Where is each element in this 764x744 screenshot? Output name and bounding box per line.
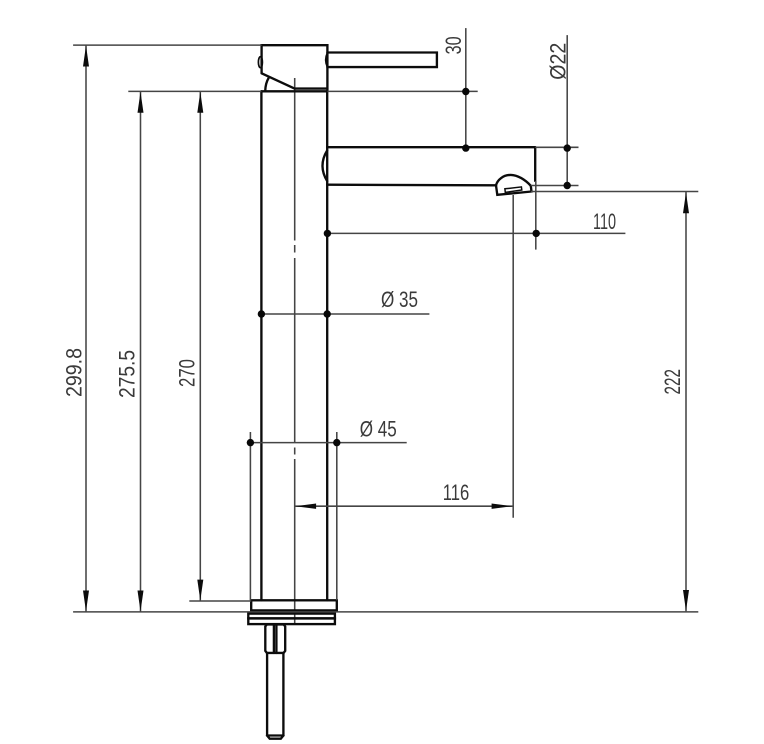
svg-text:Ø 45: Ø 45: [360, 417, 397, 442]
svg-text:30: 30: [441, 36, 466, 54]
lever handle rod: [326, 53, 437, 68]
dimension 270: [175, 91, 204, 601]
countertop line: [73, 611, 698, 613]
svg-text:110: 110: [593, 209, 616, 234]
dimension diameter 35 (body): [258, 287, 430, 318]
hex adapter: [265, 624, 285, 653]
centerline of faucet body: [294, 78, 296, 625]
extension line at flange seat: [189, 600, 251, 602]
aerator at spout tip: [496, 175, 532, 195]
dimension 116 (axis to outlet): [295, 195, 514, 518]
dimension 299.8: [61, 45, 89, 612]
handle housing (cartridge cap): [258, 45, 327, 91]
dimension 222 (outlet height): [531, 192, 698, 612]
body tube: [261, 91, 327, 600]
extension line at body top: [128, 90, 261, 92]
svg-text:Ø22: Ø22: [545, 43, 570, 80]
svg-text:270: 270: [175, 359, 200, 387]
top extension line at handle top: [73, 44, 262, 46]
svg-text:222: 222: [660, 369, 685, 395]
dimension diameter 45 (base flange): [247, 417, 407, 601]
washer under countertop: [248, 614, 335, 619]
base flange: [251, 600, 337, 610]
svg-text:275.5: 275.5: [115, 350, 140, 398]
dimension diameter 22 (spout): [531, 35, 579, 189]
dimension 110 (body edge to spout tip): [324, 181, 626, 250]
svg-text:299.8: 299.8: [61, 348, 86, 397]
dimension 275.5: [115, 91, 144, 612]
svg-text:116: 116: [443, 480, 470, 505]
locknut: [248, 618, 335, 624]
spout: [323, 147, 536, 185]
threaded shank: [267, 653, 284, 739]
dimension 30 (housing bottom to spout top): [441, 28, 470, 152]
svg-text:Ø 35: Ø 35: [381, 287, 418, 312]
